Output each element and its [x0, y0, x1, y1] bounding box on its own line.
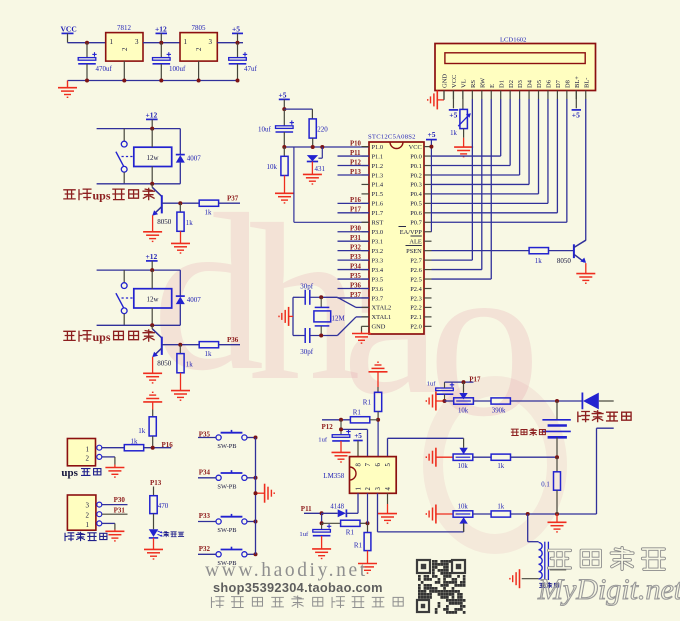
- svg-text:P16: P16: [162, 441, 174, 449]
- ground cap p12: [332, 452, 351, 462]
- svg-text:R1: R1: [354, 542, 363, 550]
- svg-text:D7: D7: [555, 79, 562, 88]
- svg-text:12w: 12w: [146, 296, 159, 304]
- svg-text:VL: VL: [461, 79, 468, 88]
- power flag +5 backlight: [572, 91, 581, 120]
- diode 4007: [176, 129, 202, 184]
- svg-text:R1: R1: [346, 529, 355, 537]
- ground pulldown: [171, 243, 190, 253]
- svg-text:SW-PB: SW-PB: [217, 483, 236, 490]
- resistor 10k rst: [267, 147, 289, 193]
- ground power: [58, 81, 77, 98]
- svg-text:1: 1: [86, 521, 90, 529]
- svg-text:431: 431: [315, 165, 326, 173]
- wire pin7 net: [339, 427, 368, 456]
- svg-text:P3.4: P3.4: [372, 267, 384, 274]
- wire ups pin1: [102, 447, 125, 449]
- svg-text:390k: 390k: [492, 407, 506, 414]
- wire 470-LED: [153, 514, 155, 530]
- svg-text:R1: R1: [363, 398, 372, 406]
- ground inverted lm358: [369, 362, 388, 392]
- ground LED: [144, 549, 163, 559]
- svg-text:P10: P10: [350, 140, 362, 147]
- svg-text:P12: P12: [350, 159, 362, 166]
- svg-text:220: 220: [317, 125, 328, 133]
- pot wiper arrow r1: [459, 393, 467, 399]
- svg-text:4148: 4148: [330, 503, 344, 510]
- svg-text:P0.6: P0.6: [410, 210, 422, 217]
- svg-text:XTAL2: XTAL2: [372, 305, 392, 312]
- svg-text:P16: P16: [350, 197, 362, 204]
- ground row3: [426, 505, 453, 524]
- svg-text:VCC: VCC: [451, 75, 458, 88]
- QR code: [416, 559, 466, 614]
- wires MCU left ports: [338, 156, 370, 298]
- resistor 1k row3: [491, 503, 510, 517]
- svg-text:www.haodiy.net: www.haodiy.net: [205, 560, 368, 581]
- wire to P16: [144, 447, 172, 449]
- svg-text:P3.6: P3.6: [372, 286, 384, 293]
- svg-text:1k: 1k: [497, 503, 504, 510]
- capacitor 1uf p17: [427, 381, 455, 401]
- svg-text:P1.0: P1.0: [372, 144, 384, 151]
- svg-text:P1.5: P1.5: [372, 191, 384, 198]
- svg-text:P2.3: P2.3: [410, 295, 422, 302]
- svg-text:VCC: VCC: [409, 144, 422, 151]
- resistor 1k pull P16: [138, 410, 156, 437]
- wire VCC EA net: [429, 140, 433, 232]
- node VCC-470uf: [85, 41, 89, 45]
- svg-text:10k: 10k: [458, 503, 469, 510]
- node P11a: [320, 511, 324, 515]
- resistor 390k: [491, 398, 510, 415]
- port P31b: [114, 507, 126, 515]
- svg-text:1k: 1k: [186, 219, 194, 227]
- shunt ref 431: [307, 147, 326, 173]
- wire base: [162, 202, 199, 204]
- label download connector: [65, 532, 107, 540]
- svg-text:1: 1: [86, 445, 90, 453]
- svg-text:1k: 1k: [138, 427, 146, 435]
- resistor 220: [309, 119, 328, 147]
- svg-text:30pf: 30pf: [300, 348, 314, 356]
- resistor 1k pulldown: [177, 203, 193, 231]
- labels MCU left ports: [350, 140, 362, 298]
- wire emitter gnd: [152, 215, 154, 231]
- port P11: [301, 505, 312, 513]
- regulator 7805: [180, 24, 217, 61]
- wire row1 c: [511, 399, 583, 403]
- port P12: [322, 423, 334, 431]
- svg-text:P2.0: P2.0: [410, 324, 422, 331]
- wire P11 down: [320, 513, 324, 525]
- svg-text:P2.5: P2.5: [410, 276, 422, 283]
- wire pin3 net: [378, 493, 464, 532]
- ground dl pin1: [105, 531, 124, 541]
- ground row1: [426, 392, 444, 411]
- node R1: [376, 418, 380, 422]
- svg-text:P1.7: P1.7: [372, 210, 384, 217]
- node +12-100uf: [159, 41, 163, 45]
- svg-text:P13: P13: [150, 479, 162, 487]
- capacitor 30pf top: [300, 282, 322, 305]
- wire BL- net: [585, 99, 587, 241]
- ground buttons: [254, 484, 275, 503]
- capacitor 30pf bottom: [300, 328, 322, 356]
- wire xtal bottom rail: [293, 334, 337, 338]
- svg-text:BL-: BL-: [583, 78, 590, 88]
- node row1 cap: [443, 399, 447, 403]
- svg-text:1uf: 1uf: [299, 531, 309, 538]
- svg-text:1: 1: [184, 38, 188, 46]
- annotation battery: [511, 429, 545, 436]
- resistor R1 gnd: [354, 523, 371, 563]
- node relay bottom: [150, 323, 154, 327]
- svg-text:P3.7: P3.7: [372, 295, 384, 302]
- LCD pin labels and stubs: [442, 74, 591, 99]
- IC U1 pins: [362, 144, 432, 331]
- wire transformer gnd: [522, 578, 539, 580]
- wire row2 a: [473, 456, 491, 458]
- svg-text:7805: 7805: [192, 24, 207, 32]
- transistor 8050 P37: [152, 184, 172, 226]
- port P34: [199, 468, 211, 476]
- wire to transformer: [528, 514, 539, 542]
- port P36: [227, 336, 239, 344]
- node relay top: [150, 268, 154, 272]
- svg-text:SW-PB: SW-PB: [217, 527, 236, 534]
- svg-text:10k: 10k: [267, 163, 278, 171]
- switch P32 SW-PB: [198, 547, 256, 567]
- ground 431: [303, 174, 322, 184]
- connector download box: [67, 495, 101, 530]
- pot 10k row1: [454, 398, 474, 415]
- svg-text:LM358: LM358: [323, 472, 345, 480]
- svg-text:D2: D2: [508, 80, 515, 88]
- svg-text:12M: 12M: [332, 315, 346, 323]
- wire P17 net: [445, 380, 474, 393]
- svg-text:+5: +5: [232, 25, 240, 34]
- svg-text:2: 2: [195, 47, 203, 51]
- svg-text:PSEN: PSEN: [406, 248, 422, 255]
- watermark mydigit: [537, 573, 680, 606]
- svg-text:P1.2: P1.2: [372, 163, 384, 170]
- svg-text:2: 2: [86, 455, 90, 463]
- svg-text:12w: 12w: [146, 154, 159, 162]
- watermark shuma: [549, 548, 665, 570]
- svg-text:P33: P33: [199, 512, 211, 520]
- node pin2: [366, 521, 370, 525]
- footer shop: [213, 580, 383, 595]
- svg-text:P0.3: P0.3: [410, 182, 422, 189]
- power flag VCC: [61, 25, 77, 43]
- junctions 431 node: [282, 145, 324, 149]
- wire 431 gnd: [311, 162, 313, 175]
- node base: [178, 343, 182, 347]
- node relay top: [150, 127, 154, 131]
- wire lcd-8050 gnd: [585, 263, 587, 274]
- port P17: [469, 375, 481, 383]
- power flag +5 lm358: [353, 432, 362, 457]
- svg-text:6: 6: [375, 463, 382, 467]
- svg-text:P2.4: P2.4: [410, 286, 422, 293]
- svg-text:P37: P37: [227, 195, 239, 203]
- wire pin1 net: [357, 493, 359, 513]
- svg-text:EA/VPP: EA/VPP: [400, 229, 422, 236]
- svg-text:P34: P34: [350, 263, 362, 270]
- ground R1 lm: [358, 564, 377, 574]
- svg-text:P31: P31: [114, 507, 126, 515]
- svg-text:10k: 10k: [458, 463, 469, 470]
- transistor 8050 lcd: [557, 240, 586, 265]
- svg-text:D6: D6: [546, 79, 553, 88]
- svg-text:VCC: VCC: [61, 25, 77, 34]
- relay switch contact: [116, 283, 133, 326]
- diode 4148: [322, 503, 358, 517]
- capacitor C 47uf: [229, 43, 258, 81]
- svg-text:10k: 10k: [458, 407, 469, 414]
- switch P33 SW-PB: [198, 514, 256, 534]
- svg-text:2: 2: [86, 511, 90, 519]
- wire relay bottom rail: [97, 183, 181, 185]
- relay coil 12w: [134, 129, 172, 184]
- svg-text:P2.2: P2.2: [410, 305, 422, 312]
- svg-text:1uf: 1uf: [427, 381, 437, 388]
- node +5 rst: [282, 107, 286, 111]
- svg-text:RST: RST: [372, 220, 384, 227]
- svg-text:RS: RS: [470, 80, 477, 88]
- junctions gnd rail: [85, 79, 240, 83]
- power flag +12a: [155, 25, 167, 43]
- ground MCU GND pin: [352, 326, 371, 343]
- svg-text:4007: 4007: [187, 155, 202, 163]
- svg-text:P3.5: P3.5: [372, 276, 384, 283]
- diode solar: [582, 393, 613, 410]
- wire power gnd rail: [68, 61, 238, 80]
- svg-text:P30: P30: [114, 496, 126, 504]
- wire 7812-out: [143, 42, 180, 44]
- svg-text:P2.6: P2.6: [410, 267, 422, 274]
- svg-text:P32: P32: [199, 545, 211, 553]
- svg-text:3: 3: [86, 502, 90, 510]
- connector ups box: [67, 439, 101, 466]
- svg-text:+12: +12: [146, 252, 158, 261]
- wire buttons common: [255, 438, 257, 555]
- svg-text:100uf: 100uf: [169, 65, 186, 73]
- svg-text:ups: ups: [93, 189, 111, 203]
- node btn P34: [254, 476, 258, 480]
- transformer CT: [539, 542, 567, 580]
- svg-text:shop35392304.taobao.com: shop35392304.taobao.com: [213, 580, 383, 595]
- svg-text:1k: 1k: [450, 130, 457, 137]
- svg-text:1k: 1k: [131, 437, 139, 445]
- svg-text:+5: +5: [428, 130, 436, 139]
- svg-text:4: 4: [385, 487, 392, 491]
- wire P12 net: [322, 418, 350, 422]
- svg-text:10uf: 10uf: [258, 125, 272, 133]
- capacitor C 100uf: [153, 43, 187, 81]
- switch P35 SW-PB: [198, 430, 256, 450]
- svg-text:1uf: 1uf: [318, 437, 328, 444]
- power flag +12 relay: [146, 252, 158, 270]
- svg-text:P34: P34: [199, 468, 211, 476]
- svg-text:470uf: 470uf: [96, 65, 113, 73]
- node relay bottom: [150, 182, 154, 186]
- ground xtal: [279, 307, 293, 326]
- svg-text:P3.1: P3.1: [372, 239, 384, 246]
- resistor R1 top: [363, 392, 382, 411]
- watermark pink letters: [152, 167, 557, 544]
- svg-text:8: 8: [355, 463, 362, 467]
- svg-text:P36: P36: [227, 336, 239, 344]
- resistor 1k lcd-drive: [432, 248, 574, 265]
- IC U2 pin numbers: [355, 463, 392, 491]
- svg-text:7812: 7812: [117, 24, 132, 32]
- node P16: [151, 446, 155, 450]
- wire relay top rail: [97, 270, 181, 283]
- node btn P33: [254, 520, 258, 524]
- svg-text:P0.4: P0.4: [410, 191, 422, 198]
- wire P11 net: [304, 512, 322, 514]
- svg-text:P0.1: P0.1: [410, 163, 422, 170]
- capacitor 1uf p12: [318, 420, 350, 453]
- wire xtal top rail: [293, 295, 337, 299]
- svg-text:8050: 8050: [557, 257, 572, 265]
- svg-text:P17: P17: [469, 375, 481, 383]
- port P32: [199, 545, 211, 553]
- power flag +5 lcdvcc: [449, 91, 458, 120]
- resistor 1k base-series: [199, 342, 240, 358]
- wire relay bottom rail: [97, 324, 181, 326]
- port P30b: [114, 496, 126, 504]
- resistor 470: [150, 487, 169, 514]
- svg-text:STC12C5A08S2: STC12C5A08S2: [368, 133, 416, 140]
- wire dl pin1 gnd: [102, 523, 115, 531]
- wire pin4 gnd: [387, 493, 389, 513]
- svg-text:1: 1: [110, 38, 114, 46]
- ground pulldown: [171, 391, 190, 401]
- node +5-47uf: [236, 41, 240, 45]
- wire R1 node: [377, 412, 379, 457]
- svg-text:2: 2: [121, 47, 129, 51]
- svg-text:P0.5: P0.5: [410, 201, 422, 208]
- svg-text:E: E: [489, 84, 496, 88]
- power flag +5a: [232, 25, 243, 43]
- wire ups pin2 gnd: [102, 457, 115, 468]
- diode 4007: [176, 270, 202, 325]
- svg-text:P30: P30: [350, 226, 362, 233]
- svg-text:D5: D5: [536, 80, 543, 88]
- crystal 12M: [314, 297, 346, 335]
- svg-text:3: 3: [135, 38, 139, 46]
- svg-text:P13: P13: [350, 169, 362, 176]
- label transformer: [540, 583, 559, 588]
- capacitor C 470uf: [78, 43, 112, 81]
- capacitor 10uf: [258, 109, 294, 147]
- wire emitter gnd: [152, 357, 154, 373]
- resistor R1 horiz: [350, 409, 378, 423]
- svg-text:P3.3: P3.3: [372, 257, 384, 264]
- ground lcd-8050: [576, 274, 595, 284]
- wire pot gnd: [463, 129, 465, 148]
- svg-text:1k: 1k: [186, 361, 194, 369]
- svg-text:RW: RW: [479, 77, 486, 88]
- svg-text:3: 3: [375, 487, 382, 491]
- svg-text:1k: 1k: [535, 257, 543, 265]
- svg-text:5: 5: [385, 463, 392, 467]
- svg-text:ups: ups: [93, 330, 111, 344]
- svg-text:GND: GND: [372, 324, 386, 331]
- svg-text:P1.1: P1.1: [372, 153, 384, 160]
- LED breathing: [149, 529, 163, 538]
- wire xtal1 diag: [337, 317, 369, 336]
- svg-text:D1: D1: [498, 80, 505, 88]
- svg-text:+5: +5: [449, 111, 457, 120]
- svg-text:7: 7: [365, 463, 372, 467]
- svg-text:ups: ups: [61, 467, 78, 479]
- annotation P36: [64, 330, 154, 344]
- wire base: [162, 344, 199, 346]
- ground 10k rst: [275, 193, 294, 203]
- switch P34 SW-PB: [198, 470, 256, 490]
- svg-text:470: 470: [158, 502, 169, 510]
- label ups connector: [61, 467, 101, 479]
- svg-text:P1.3: P1.3: [372, 172, 384, 179]
- wire dl pin3: [102, 504, 128, 506]
- port P16: [162, 441, 174, 449]
- resistor 1k pulldown: [177, 345, 193, 373]
- wires LCD control: [432, 99, 492, 279]
- wire row1 a: [445, 400, 454, 402]
- power flag +5 mcu: [426, 130, 437, 139]
- wire pin5 net: [388, 438, 464, 456]
- svg-text:1k: 1k: [205, 350, 213, 358]
- svg-text:1k: 1k: [497, 463, 504, 470]
- wire row2 b: [511, 455, 560, 459]
- wire solar return: [597, 428, 614, 514]
- node btn P35: [254, 436, 258, 440]
- pot 10k row3: [453, 503, 473, 532]
- annotation P37: [64, 188, 154, 202]
- svg-text:47uf: 47uf: [244, 65, 258, 73]
- svg-text:P3.2: P3.2: [372, 248, 384, 255]
- svg-text:P2.7: P2.7: [410, 257, 422, 264]
- port P37: [227, 195, 239, 203]
- IC U2 LM358 body: [323, 457, 396, 494]
- wire VCC rail: [68, 42, 106, 44]
- svg-text:P0.0: P0.0: [410, 153, 422, 160]
- svg-text:3: 3: [209, 38, 213, 46]
- svg-text:P11: P11: [301, 505, 312, 513]
- svg-text:P1.4: P1.4: [372, 182, 384, 189]
- ground above pull-up 1k: [143, 392, 162, 409]
- wire row1 b: [473, 400, 491, 402]
- svg-text:P35: P35: [350, 273, 362, 280]
- ground row2: [426, 448, 453, 467]
- relay switch contact: [116, 141, 133, 184]
- wire dl pin2: [102, 513, 128, 515]
- wire pulldown gnd: [180, 231, 182, 243]
- resistor 0.1 sense: [541, 457, 560, 514]
- svg-text:LCD1602: LCD1602: [500, 36, 526, 43]
- pot 10k row2: [453, 438, 473, 470]
- svg-text:ALE: ALE: [409, 239, 422, 246]
- wire LED gnd: [153, 538, 155, 550]
- ground row3 node: [548, 514, 567, 532]
- svg-text:P0.7: P0.7: [410, 220, 422, 227]
- ground cap p11: [312, 549, 331, 559]
- port P35: [199, 430, 211, 438]
